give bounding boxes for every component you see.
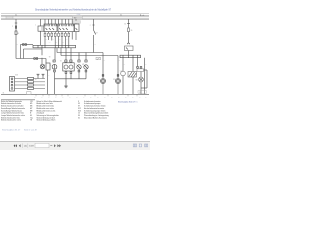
- svg-text:T4a: T4a: [30, 117, 33, 119]
- svg-text:S5: S5: [131, 30, 133, 32]
- svg-text:V7: V7: [98, 79, 100, 81]
- svg-text:Stromlaufplan Seite 27 / 1: Stromlaufplan Seite 27 / 1: [118, 100, 137, 103]
- svg-text:E7: E7: [96, 32, 98, 34]
- svg-text:30: 30: [120, 15, 122, 17]
- svg-text:S5: S5: [30, 115, 32, 117]
- svg-text:V13: V13: [78, 110, 81, 112]
- svg-text:M5: M5: [82, 64, 84, 66]
- svg-text:T8: T8: [49, 56, 51, 58]
- svg-text:M7: M7: [30, 108, 32, 110]
- svg-text:31: 31: [78, 117, 80, 119]
- svg-text:15: 15: [78, 113, 80, 115]
- svg-text:V13: V13: [120, 71, 123, 73]
- svg-text:S9: S9: [17, 33, 19, 35]
- svg-text:M5: M5: [30, 103, 32, 105]
- svg-text:Seite 1 von 49: Seite 1 von 49: [24, 129, 38, 132]
- svg-text:M8: M8: [30, 110, 32, 112]
- svg-text:V: V: [76, 64, 77, 66]
- svg-text:30: 30: [15, 15, 17, 17]
- svg-text:J31: J31: [30, 101, 33, 103]
- svg-text:(2): (2): [24, 146, 27, 148]
- svg-text:27: 27: [139, 92, 141, 94]
- svg-text:V12: V12: [78, 108, 81, 110]
- svg-text:30: 30: [78, 115, 80, 117]
- svg-text:M6: M6: [30, 106, 32, 108]
- svg-text:31: 31: [3, 92, 5, 94]
- svg-text:30: 30: [124, 23, 126, 25]
- svg-text:V7: V7: [78, 106, 80, 108]
- svg-text:T8: T8: [30, 120, 32, 122]
- svg-text:Stromlaufplan Nebelscheinwerfe: Stromlaufplan Nebelscheinwerfer und Nebe…: [35, 7, 111, 11]
- svg-text:V5: V5: [50, 65, 52, 67]
- svg-text:V5: V5: [78, 103, 80, 105]
- svg-text:Stromlaufplan Nr. 27: Stromlaufplan Nr. 27: [2, 129, 21, 132]
- svg-text:T4: T4: [35, 79, 37, 81]
- svg-text:M8: M8: [136, 79, 138, 81]
- svg-text:T4: T4: [60, 61, 62, 63]
- svg-text:E18: E18: [15, 75, 18, 77]
- svg-text:Zündspule: Zündspule: [37, 113, 45, 115]
- svg-text:Scheibenwaschpumpe: Scheibenwaschpumpe: [84, 103, 101, 105]
- svg-text:V12: V12: [113, 79, 116, 81]
